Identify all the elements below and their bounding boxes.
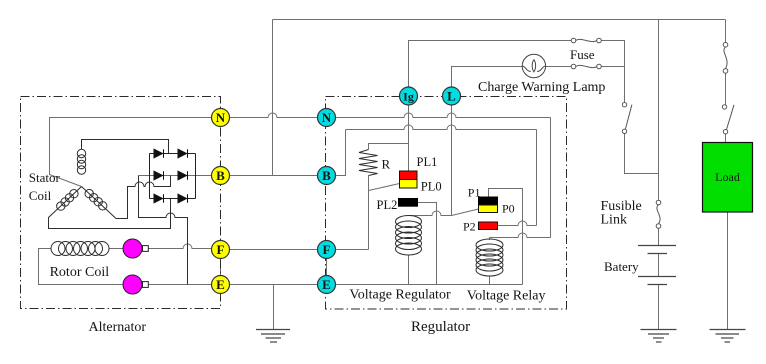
- svg-text:P1: P1: [468, 186, 481, 200]
- svg-text:B: B: [216, 168, 225, 183]
- terminal E alternator: [212, 276, 230, 294]
- contact PL1: [400, 171, 418, 180]
- wire lamp to fuse2: [546, 66, 572, 68]
- wire relay coil top stem: [489, 238, 491, 241]
- svg-text:E: E: [322, 277, 331, 292]
- wire B row bridge to yellow-B: [139, 175, 212, 177]
- svg-text:Voltage Relay: Voltage Relay: [467, 289, 546, 304]
- wire fusible link to battery: [658, 228, 660, 245]
- fusible link battery: [656, 200, 661, 228]
- terminal L: [443, 87, 461, 105]
- terminal E regulator: [318, 276, 336, 294]
- svg-text:PL0: PL0: [421, 180, 442, 194]
- brush F: [123, 239, 142, 258]
- wire bridge negative rail to E with hop over x=170.5: [139, 176, 188, 285]
- wire battery line x=658.5 upper: [658, 20, 660, 201]
- wire rotor coil to brush F: [109, 248, 123, 250]
- svg-text:P0: P0: [502, 202, 515, 216]
- wire rotor coil left loop to E row: [39, 249, 124, 285]
- wire P1 top feed to E drop x=522.5: [489, 189, 523, 285]
- svg-text:Link: Link: [601, 213, 627, 228]
- wire N row yellow-N to cyan-N with hop over x=272.5: [230, 113, 318, 118]
- wire battery to ground: [658, 285, 660, 330]
- wire load branch upper: [725, 20, 727, 43]
- stator coil top winding: [57, 149, 107, 210]
- contact PL0: [400, 180, 418, 189]
- wire segment cyan F to cyan E: [326, 259, 328, 277]
- wire VR coil bottom stem: [408, 255, 410, 285]
- svg-text:P2: P2: [463, 220, 476, 234]
- stator coil top phase lead: [82, 140, 169, 154]
- brush E: [123, 275, 142, 294]
- diode bridge frame: [150, 154, 196, 199]
- wire relay coil top feed with hop over x=522.5: [490, 233, 551, 238]
- wire segment yellow F to yellow E: [220, 259, 222, 277]
- svg-text:N: N: [322, 110, 332, 125]
- diode D4: [178, 171, 187, 180]
- ground battery: [641, 330, 677, 343]
- terminal B alternator: [212, 167, 230, 185]
- svg-text:Voltage Regulator: Voltage Regulator: [349, 288, 451, 303]
- wire ignition switch out to battery line: [625, 134, 659, 174]
- load fusible link: [722, 42, 734, 133]
- fuse F2: [571, 64, 576, 69]
- svg-text:F: F: [217, 242, 225, 257]
- wire B row yellow-B to cyan-B: [230, 175, 318, 177]
- svg-text:Fuse: Fuse: [570, 47, 595, 62]
- fuse F1: [571, 38, 601, 69]
- wire relay coil bottom stem: [489, 276, 491, 285]
- svg-text:E: E: [216, 277, 225, 292]
- wire load link to switch: [725, 73, 727, 105]
- wire B feed y=129.5 to x=536.5 with hops over Ig and L drops: [346, 125, 537, 130]
- svg-text:Rotor Coil: Rotor Coil: [50, 265, 110, 280]
- terminal F regulator: [318, 241, 336, 259]
- terminal N regulator: [318, 109, 336, 127]
- wire F row cyan-F to field riser: [336, 249, 369, 251]
- regulator box: [326, 97, 567, 310]
- svg-text:Load: Load: [715, 170, 740, 184]
- wire PL0 arm diagonal: [369, 184, 400, 191]
- load box: [703, 143, 753, 213]
- wire ground stem x=273.5: [273, 285, 275, 330]
- wire E row yellow-E to cyan-E: [230, 284, 318, 286]
- terminal B regulator: [318, 167, 336, 185]
- wire R top to Ig drop: [369, 144, 409, 150]
- wire F row brush to yellow-F with hop over x=187.5: [149, 244, 212, 249]
- contact PL2: [399, 199, 418, 207]
- wire E row cyan-E to x=522.5: [336, 284, 523, 286]
- diode D1: [154, 149, 188, 203]
- wire field riser x=368.5 F row up to R bottom: [368, 176, 370, 250]
- svg-text:Charge Warning Lamp: Charge Warning Lamp: [478, 80, 605, 95]
- wire riser x=272.5 from top bus down to B row: [272, 20, 274, 176]
- contact P1: [479, 197, 498, 205]
- terminal F alternator: [212, 241, 230, 259]
- svg-text:L: L: [447, 89, 456, 104]
- svg-text:N: N: [216, 110, 226, 125]
- ground alternator: [256, 330, 290, 343]
- rotor coil: [51, 242, 109, 256]
- charge warning lamp: [522, 54, 545, 77]
- wire fuse2 out to x=624.5: [601, 66, 624, 68]
- diode D2: [178, 149, 187, 158]
- wire load switch to load box: [725, 134, 727, 142]
- wire Ig up to fuse1: [409, 41, 572, 88]
- diode D5: [154, 194, 163, 203]
- wire F row yellow-F to cyan-F: [230, 249, 318, 251]
- svg-text:PL2: PL2: [377, 198, 398, 212]
- stator coil right leg: [82, 176, 171, 219]
- wire battery cells connector: [658, 254, 660, 277]
- wire Ig drop to PL1: [408, 105, 410, 171]
- wire N row left to stator neutral: [50, 118, 212, 187]
- battery: [638, 246, 676, 285]
- resistor R: [359, 150, 378, 176]
- svg-text:Ig: Ig: [403, 90, 414, 104]
- terminal Ig: [400, 87, 418, 105]
- wire top bus B to battery and load: [273, 19, 726, 21]
- stator coil right winding: [85, 189, 93, 197]
- svg-text:Regulator: Regulator: [411, 319, 470, 335]
- wire B row cyan-B right then riser x=345.5 up: [336, 130, 346, 176]
- ground load: [710, 330, 746, 343]
- svg-text:R: R: [382, 157, 391, 172]
- svg-text:Coil: Coil: [29, 188, 52, 203]
- svg-text:F: F: [323, 242, 331, 257]
- ignition switch: [622, 103, 632, 134]
- contact P2: [479, 222, 498, 230]
- svg-text:Batery: Batery: [604, 259, 639, 274]
- terminal N alternator: [212, 109, 230, 127]
- wire load box to ground: [727, 212, 729, 329]
- load switch: [722, 105, 726, 109]
- voltage regulator coil: [396, 216, 422, 256]
- wire L drop into regulator: [451, 105, 453, 216]
- svg-text:B: B: [322, 168, 331, 183]
- wire E row brush to yellow-E: [149, 284, 212, 286]
- wire fuse1 out to corner x=624.5: [601, 41, 624, 103]
- wire P0 arm diagonal: [452, 209, 479, 216]
- wire L up to lamp: [452, 67, 523, 88]
- diode D3: [154, 171, 163, 180]
- wire PL2 to ground drop x=436.5: [418, 203, 437, 285]
- contact P0: [479, 205, 498, 213]
- svg-text:Stator: Stator: [29, 170, 61, 185]
- alternator box: [21, 97, 221, 309]
- svg-text:PL1: PL1: [417, 155, 438, 169]
- diode D6: [178, 194, 187, 203]
- wire VR coil top to arm junction with hop over x=436.5: [410, 211, 452, 216]
- wire N row cyan-N to x=550 with hops over Ig and L drops: [336, 113, 551, 118]
- svg-text:Alternator: Alternator: [89, 320, 147, 335]
- wire P2 feed with hop over x=522.5: [498, 221, 537, 226]
- wire B drop x=536.5: [536, 130, 538, 226]
- stator coil left leg: [49, 187, 171, 229]
- wire N drop x=550.5 to relay coil feed: [550, 118, 552, 238]
- svg-text:Fusible: Fusible: [601, 199, 642, 214]
- stator coil left winding: [70, 190, 78, 198]
- voltage relay coil: [476, 239, 503, 276]
